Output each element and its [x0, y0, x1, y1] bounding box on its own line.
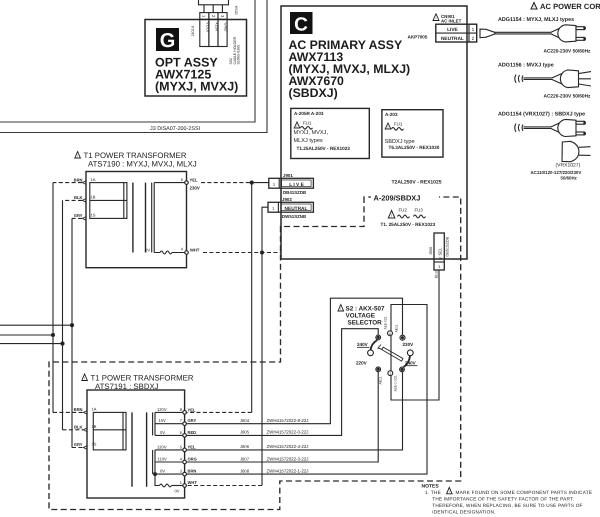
svg-text:A-203: A-203 [385, 112, 398, 117]
svg-text:G: G [160, 30, 176, 52]
connector J401A slots VOUT +15V GND [200, 19, 229, 46]
svg-text:!: ! [84, 377, 85, 381]
svg-text:YEL: YEL [188, 444, 196, 449]
svg-text:J807: J807 [240, 456, 250, 461]
svg-text:DB41SZDB: DB41SZDB [283, 190, 306, 195]
svg-text:1: 1 [389, 372, 391, 376]
svg-text:120V: 120V [157, 444, 167, 449]
svg-text:0V: 0V [145, 247, 150, 252]
svg-text:GRY: GRY [74, 213, 83, 218]
switch S2 contact 240V lower-right [400, 367, 405, 372]
power cord ADG1154 VRX1027 SBDXJ [498, 111, 585, 136]
svg-text:+15V: +15V [214, 22, 219, 32]
svg-text:!: ! [297, 124, 298, 128]
label 240V upper-left [357, 342, 370, 347]
switch S2 AKX-507 voltage selector title [338, 305, 385, 327]
adapter plug VRX1027 [531, 141, 591, 180]
svg-text:ZWH41572022-0-22J: ZWH41572022-0-22J [267, 430, 309, 435]
svg-text:T1.25AL250V - REX1023: T1.25AL250V - REX1023 [297, 146, 351, 151]
box: OPT ASSY G outline [145, 20, 247, 97]
svg-text:VOLTAGE: VOLTAGE [346, 313, 376, 320]
svg-text:BLU: BLU [435, 270, 439, 278]
svg-text:WHT: WHT [190, 247, 200, 252]
wire YEL tap5 to selector contact 240V lower-right [186, 372, 402, 450]
svg-text:WHT: WHT [188, 480, 198, 485]
svg-text:10V: 10V [159, 418, 167, 423]
svg-text:L I V E: L I V E [289, 182, 304, 188]
svg-text:BRN: BRN [188, 469, 197, 474]
logo G [156, 28, 179, 52]
switch S2 contact 230V upper-right [400, 335, 405, 340]
svg-text:GND: GND [224, 23, 229, 32]
svg-text:J805: J805 [240, 430, 250, 435]
wire BRN tap3 to selector link loop [186, 305, 427, 475]
wire RED tap6 to selector contact 240V upper-left [186, 329, 378, 436]
switch S2 rotor bar [378, 345, 403, 362]
node A-209/SBDXJ label [371, 192, 439, 203]
svg-text:AC110/120-127/220/230V: AC110/120-127/220/230V [531, 170, 582, 175]
svg-text:ZWH41572022-4-22J: ZWH41572022-4-22J [267, 444, 309, 449]
svg-text:220V: 220V [356, 361, 368, 366]
svg-text:GRY: GRY [188, 418, 197, 423]
connector J901 LIVE [269, 173, 314, 195]
svg-text:!: ! [388, 125, 389, 129]
fuse FU3 [414, 208, 426, 218]
wire selector link 1 to J906 BLU [391, 270, 439, 400]
svg-text:AKP7005: AKP7005 [408, 35, 428, 40]
wire YEL T1 to J901 LIVE [201, 181, 269, 184]
svg-text:S1963-0365: S1963-0365 [237, 45, 241, 65]
svg-text:!: ! [340, 307, 341, 311]
connector J401A housing top [199, 0, 229, 5]
svg-text:AC POWER CORD: AC POWER CORD [540, 2, 600, 11]
svg-text:1S: 1S [91, 213, 96, 218]
switch S2 contact A [388, 331, 393, 336]
svg-text:(MYXJ, MVXJ): (MYXJ, MVXJ) [155, 80, 238, 94]
transformer T1 body [82, 172, 188, 268]
svg-text:!: ! [77, 154, 78, 158]
svg-text:T6.3AL250V - REX1030: T6.3AL250V - REX1030 [389, 145, 440, 150]
wire LIVE down to T1/SBDXJ pin 8 [186, 183, 251, 413]
wire stub to BLK from left edge [0, 342, 64, 345]
svg-text:J804: J804 [240, 418, 250, 423]
svg-text:ZWH41572022-8-22J: ZWH41572022-8-22J [267, 418, 309, 423]
svg-text:0V: 0V [175, 489, 180, 494]
svg-text:NEUTRAL: NEUTRAL [285, 206, 308, 212]
svg-text:1B: 1B [92, 424, 97, 429]
switch S2 wiper arc right [404, 356, 410, 367]
svg-text:BLK: BLK [74, 195, 82, 200]
svg-text:2: 2 [472, 36, 475, 41]
svg-text:50/60Hz: 50/60Hz [561, 176, 578, 181]
svg-text:!: ! [391, 214, 392, 218]
svg-text:GRY: GRY [74, 442, 83, 447]
transformer T1 ATS7191 SBDXJ header [82, 374, 194, 391]
svg-text:BRN: BRN [74, 407, 83, 412]
svg-text:1A: 1A [92, 407, 97, 412]
switch S2 contact 240V upper-left [376, 335, 381, 340]
svg-text:NEUTRAL: NEUTRAL [441, 36, 464, 42]
svg-text:A-209/SBDXJ: A-209/SBDXJ [374, 194, 421, 203]
connector J401A pin row 1 2 3 [200, 13, 227, 20]
svg-text:230V: 230V [190, 186, 200, 191]
svg-text:(VRX1027): (VRX1027) [556, 163, 581, 169]
label AC POWER CORD title [531, 2, 600, 11]
svg-text:THEREFORE, WHEN REPLACING, BE: THEREFORE, WHEN REPLACING, BE SURE TO US… [432, 503, 582, 508]
svg-text:MYXJ, MVXJ,: MYXJ, MVXJ, [294, 130, 329, 136]
connector J902 NEUTRAL [268, 197, 313, 219]
switch S2 pole right open [407, 350, 413, 356]
logo C [290, 12, 313, 36]
text OPT ASSY AWX7125 [155, 56, 238, 94]
svg-text:A-205R A-203: A-205R A-203 [294, 111, 324, 116]
svg-text:FU2: FU2 [399, 208, 408, 213]
label T1 SBDXJ tap voltages and pins [157, 407, 183, 494]
svg-text:!: ! [436, 17, 437, 21]
fuse FU1 box MYXJ MVXJ MLXJ types [291, 108, 370, 158]
svg-text:J401A: J401A [191, 25, 195, 36]
svg-text:J906: J906 [429, 247, 433, 255]
label T1 pin colors [74, 177, 200, 252]
svg-text:120V: 120V [157, 407, 167, 412]
svg-text:V SEL: V SEL [438, 247, 443, 260]
svg-text:0V: 0V [160, 430, 165, 435]
svg-text:FU1: FU1 [394, 122, 403, 127]
svg-text:AE11: AE11 [395, 324, 399, 332]
wire BLK T1 to T1/SBDXJ [63, 200, 84, 429]
label T1 SBDXJ wire colors [74, 407, 198, 485]
svg-text:1S: 1S [92, 442, 97, 447]
svg-text:IDENTICAL DESIGNATION.: IDENTICAL DESIGNATION. [432, 510, 495, 515]
svg-text:J808: J808 [240, 468, 250, 473]
svg-text:ADG1154 (VRX1027) : SBDXJ type: ADG1154 (VRX1027) : SBDXJ type [498, 111, 585, 117]
label S02 CABLE HOLDER S1963-0365 rotated [229, 36, 241, 64]
wire NEUTRAL down to T1/SBDXJ pin 1 WHT [186, 207, 268, 485]
svg-text:MARK FOUND ON SOME COMPONE: MARK FOUND ON SOME COMPONENT PARTS INDIC… [456, 490, 593, 495]
svg-text:SELECTOR: SELECTOR [348, 320, 383, 327]
wire stub to BRN from left edge [0, 334, 55, 337]
notes text [422, 484, 593, 515]
svg-text:1A: 1A [91, 177, 96, 182]
svg-text:DISA: DISA [235, 5, 239, 14]
svg-text:ZWH41572022-3-22J: ZWH41572022-3-22J [267, 456, 309, 461]
svg-text:AC220-230V 50/60Hz: AC220-230V 50/60Hz [544, 49, 592, 55]
connector CN901 AC INLET label [433, 14, 462, 24]
svg-text:0V: 0V [160, 469, 165, 474]
svg-text:1: 1 [472, 27, 475, 32]
wire GRY T1 to T1/SBDXJ [72, 218, 83, 447]
svg-text:240V: 240V [405, 361, 417, 366]
svg-text:J902: J902 [282, 197, 292, 202]
svg-text:DB51SZDB: DB51SZDB [446, 236, 450, 256]
power cord ADG1154 MYXJ MLXJ [480, 17, 591, 55]
svg-text:ZWH41572022-1-22J: ZWH41572022-1-22J [267, 468, 309, 473]
svg-text:ALE-021: ALE-021 [384, 316, 388, 329]
net boundary: A-209/SBDXJ dashed region [49, 197, 461, 510]
svg-text:RED: RED [188, 430, 197, 435]
text AC PRIMARY ASSY titles [289, 38, 411, 100]
svg-text:(SBDXJ): (SBDXJ) [289, 86, 338, 100]
svg-text:S2 : AKX-507: S2 : AKX-507 [346, 306, 385, 313]
svg-text:ATS7190 : MYXJ, MVXJ, MLXJ: ATS7190 : MYXJ, MVXJ, MLXJ [88, 159, 197, 168]
svg-text:C: C [294, 15, 308, 36]
fuse FU1 box SBDXJ type [382, 110, 443, 157]
switch S2 wiper arc left [371, 340, 378, 350]
svg-text:BLK: BLK [74, 425, 82, 430]
connector CN901 AC INLET table [436, 24, 477, 42]
switch S2 contact 1 [388, 371, 393, 376]
svg-text:AE11: AE11 [379, 376, 383, 384]
wire GRY tap7 to selector top loop [186, 298, 402, 424]
wire BRN T1 to T1/SBDXJ [53, 183, 83, 413]
svg-text:240V: 240V [357, 342, 369, 347]
svg-text:J901: J901 [283, 173, 293, 178]
svg-text:DW51SZNB: DW51SZNB [282, 214, 306, 219]
fuse FU2 [388, 208, 409, 219]
label 240V lower-right [405, 361, 418, 366]
connector J401A leads [204, 5, 222, 13]
frame: OPT assy section inner border [0, 0, 255, 122]
switch S2 contact 220V lower-left [376, 367, 381, 372]
svg-text:ADG1156 : MVXJ type: ADG1156 : MVXJ type [498, 62, 554, 68]
svg-text:J806: J806 [240, 444, 250, 449]
svg-text:!: ! [534, 5, 535, 9]
switch S2 pole left open [368, 350, 374, 356]
transformer T1 ATS7190 header [75, 151, 197, 168]
svg-text:NOTES: NOTES [422, 484, 440, 490]
svg-text:YEL: YEL [190, 178, 198, 183]
svg-text:THE IMPORTANCE OF THE SAFE: THE IMPORTANCE OF THE SAFETY FACTOR OF T… [432, 497, 574, 502]
box: AC PRIMARY ASSY C outline [281, 6, 467, 259]
svg-text:YEL: YEL [188, 407, 196, 412]
svg-text:1. THE: 1. THE [425, 490, 441, 495]
svg-text:!: ! [449, 490, 450, 494]
connector J906 V SEL [429, 233, 450, 278]
svg-text:1B: 1B [91, 195, 96, 200]
wire WHT T1 to NEUTRAL line [203, 251, 281, 254]
svg-text:ALE-1-021: ALE-1-021 [394, 375, 398, 391]
svg-text:AC220-230V 50/60Hz: AC220-230V 50/60Hz [544, 94, 592, 100]
svg-text:AC INLET: AC INLET [441, 19, 462, 24]
svg-text:BRN: BRN [74, 177, 83, 182]
svg-text:230V: 230V [403, 342, 415, 347]
svg-text:SBDXJ type: SBDXJ type [385, 139, 415, 145]
wire ORG tap4 to selector contact 220V lower-left [186, 372, 378, 462]
svg-text:FU1: FU1 [303, 121, 312, 126]
transformer T1 SBDXJ body [83, 390, 186, 498]
svg-text:ADG1154 : MYXJ, MLXJ types: ADG1154 : MYXJ, MLXJ types [498, 17, 574, 23]
svg-text:MLXJ types: MLXJ types [294, 138, 323, 144]
svg-text:110V: 110V [158, 456, 168, 461]
svg-text:T1. 25AL250V - REX1023: T1. 25AL250V - REX1023 [381, 222, 436, 227]
svg-text:VOUT: VOUT [205, 22, 210, 34]
svg-text:ORG: ORG [188, 457, 197, 462]
wire stub to GRY from left edge [0, 324, 74, 327]
svg-text:J3 DISA07-200-2SSI: J3 DISA07-200-2SSI [150, 126, 200, 132]
svg-text:FU3: FU3 [415, 208, 424, 213]
svg-text:LIVE: LIVE [447, 27, 458, 33]
power cord ADG1156 MVXJ [498, 62, 591, 99]
frame: OPT assy section outer border [0, 0, 267, 133]
svg-text:T2AL250V - REX1025: T2AL250V - REX1025 [392, 180, 442, 186]
wire selector link A to 1 [390, 336, 392, 371]
